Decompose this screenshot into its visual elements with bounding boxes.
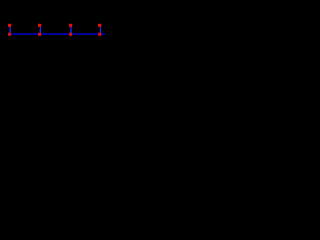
node: bus junction 4 (98, 33, 101, 36)
node: top pin 2 (38, 24, 41, 27)
node: bus junction 2 (38, 33, 41, 36)
node: bus junction 1 (8, 33, 11, 36)
node: bus junction 3 (69, 33, 72, 36)
node: top pin 3 (69, 24, 72, 27)
wire: vertical stub 2 (40, 27, 41, 34)
wire: vertical stub 1 (10, 27, 11, 34)
node: top pin 4 (98, 24, 101, 27)
wire: horizontal bus net (8, 33, 105, 35)
wire: vertical stub 4 (100, 27, 101, 34)
node: top pin 1 (8, 24, 11, 27)
wire: vertical stub 3 (70, 27, 71, 34)
